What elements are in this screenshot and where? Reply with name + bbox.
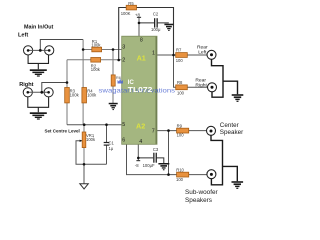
svg-text:Right: Right bbox=[195, 82, 207, 88]
wire pin5 row bbox=[67, 124, 122, 126]
wire C1 leads bbox=[106, 125, 108, 165]
node left jacks tip dots bbox=[27, 49, 30, 52]
wire pin3 row bbox=[83, 49, 122, 51]
wire pin1 output row bbox=[157, 54, 207, 56]
terminal +8 bbox=[137, 17, 141, 18]
wire A2 feedback pin7 to pin6 bbox=[127, 131, 169, 175]
svg-text:100k: 100k bbox=[70, 92, 80, 97]
wire A1 feedback loop bbox=[119, 8, 174, 61]
svg-text:Main In/Out: Main In/Out bbox=[24, 24, 54, 30]
watermark logo bbox=[118, 79, 123, 84]
svg-text:3: 3 bbox=[122, 44, 125, 50]
wire VR1 bottom lead bbox=[83, 148, 85, 165]
resistor R8 bbox=[176, 85, 188, 90]
svg-text:8: 8 bbox=[140, 38, 143, 44]
svg-text:Set Centre Level: Set Centre Level bbox=[45, 128, 80, 133]
svg-text:C1: C1 bbox=[109, 141, 115, 146]
svg-text:TL072: TL072 bbox=[128, 87, 153, 94]
wire left jacks signal row bbox=[28, 49, 49, 51]
svg-text:Speakers: Speakers bbox=[185, 197, 212, 204]
svg-text:R8: R8 bbox=[177, 80, 183, 85]
svg-text:A2: A2 bbox=[136, 121, 145, 130]
svg-text:Sub-woofer: Sub-woofer bbox=[185, 189, 219, 196]
svg-text:Left: Left bbox=[18, 32, 28, 38]
capacitor C2 bbox=[154, 18, 158, 27]
svg-text:4: 4 bbox=[139, 139, 142, 145]
node pin8 C2 junction bbox=[138, 22, 141, 25]
ground left input bbox=[30, 69, 47, 76]
wire pin7 output row bbox=[157, 130, 207, 132]
wire output to R8 column bbox=[174, 55, 177, 87]
svg-text:100k: 100k bbox=[91, 67, 101, 72]
svg-text:100k: 100k bbox=[87, 92, 97, 97]
rca jack rear right bbox=[208, 83, 217, 92]
resistor R2 bbox=[91, 58, 101, 63]
ground C3 bbox=[158, 163, 169, 170]
rca jack subwoofer bbox=[207, 170, 216, 179]
svg-text:IC: IC bbox=[128, 79, 135, 86]
svg-text:100: 100 bbox=[177, 90, 185, 95]
svg-text:R6: R6 bbox=[116, 75, 122, 80]
node VR1 bottom junction bbox=[83, 163, 86, 166]
resistor R1 bbox=[92, 47, 102, 52]
potentiometer VR1 bbox=[82, 132, 86, 148]
wire pin2 row bbox=[67, 59, 122, 61]
IC U1 TL072 body bbox=[122, 36, 157, 144]
svg-text:R9: R9 bbox=[177, 123, 183, 128]
ground right input bbox=[30, 112, 47, 119]
capacitor C3 bbox=[153, 153, 157, 163]
wire R8 row to rear right jack bbox=[185, 86, 208, 88]
node pin1 feedback junction bbox=[172, 54, 175, 57]
svg-text:100: 100 bbox=[176, 177, 184, 182]
wire right input riser bbox=[42, 83, 67, 93]
wire pin4 stub bbox=[137, 144, 139, 160]
svg-text:100K: 100K bbox=[121, 11, 131, 16]
svg-text:100k: 100k bbox=[86, 137, 96, 142]
resistor R9 bbox=[177, 128, 189, 133]
svg-text:R7: R7 bbox=[176, 47, 182, 52]
wire C2 row bbox=[139, 22, 169, 24]
node pin4 junction bbox=[137, 157, 140, 160]
node pin7 junction bbox=[167, 129, 170, 132]
svg-text:+8: +8 bbox=[135, 12, 141, 17]
node R3 top junction bbox=[66, 81, 69, 84]
svg-text:5: 5 bbox=[122, 122, 125, 128]
node R1 left junction bbox=[82, 48, 85, 51]
svg-text:Speaker: Speaker bbox=[220, 129, 243, 136]
terminal -8 bbox=[136, 160, 140, 161]
wire right jacks signal row bbox=[28, 91, 49, 93]
svg-text:100μF: 100μF bbox=[143, 163, 155, 168]
svg-text:R5: R5 bbox=[128, 1, 134, 6]
svg-text:100k: 100k bbox=[91, 43, 101, 48]
wire rear ground branch bbox=[223, 81, 238, 94]
svg-text:100: 100 bbox=[177, 133, 185, 138]
svg-text:A1: A1 bbox=[137, 54, 146, 63]
wire R4 column bbox=[82, 40, 84, 125]
svg-text:C2: C2 bbox=[153, 12, 159, 17]
node right jack junction bbox=[40, 91, 43, 94]
svg-text:Center: Center bbox=[220, 122, 239, 129]
svg-text:R10: R10 bbox=[176, 167, 184, 172]
wire C3 row bbox=[138, 158, 164, 163]
wire output ground branch bbox=[223, 166, 238, 181]
wire left jacks shield bracket bbox=[28, 55, 48, 69]
svg-text:1: 1 bbox=[152, 51, 155, 57]
wire VR1 ground stem bbox=[83, 164, 85, 183]
rca jack left L1 bbox=[24, 46, 54, 55]
svg-text:1μ: 1μ bbox=[109, 146, 114, 151]
svg-text:2: 2 bbox=[122, 57, 125, 63]
rca jack rear left bbox=[207, 50, 216, 59]
node C1 top junction bbox=[105, 123, 108, 126]
ground R6 bbox=[109, 103, 118, 111]
ground rear bbox=[232, 94, 244, 102]
capacitor C1 bbox=[104, 142, 110, 146]
node R4 bottom junction bbox=[83, 123, 86, 126]
wire R6 column bbox=[112, 50, 114, 103]
wire rear ground bus bbox=[212, 59, 224, 97]
svg-text:Left: Left bbox=[198, 50, 207, 56]
wire right jacks shield bracket bbox=[28, 97, 49, 112]
resistor R4 bbox=[82, 88, 87, 103]
node subwoofer junction bbox=[167, 173, 170, 176]
svg-text:7: 7 bbox=[152, 128, 155, 134]
svg-text:100μ: 100μ bbox=[151, 27, 161, 32]
node left jack junction bbox=[39, 49, 42, 52]
node pin2 feedback junction bbox=[117, 59, 120, 62]
svg-text:-8: -8 bbox=[135, 163, 139, 168]
svg-text:Right: Right bbox=[19, 82, 33, 88]
wire R3 column bbox=[66, 60, 68, 125]
resistor R10 bbox=[177, 172, 189, 177]
wire VR1 top lead bbox=[83, 125, 85, 132]
svg-text:C3: C3 bbox=[153, 147, 159, 152]
svg-text:100: 100 bbox=[176, 58, 184, 63]
wire left input riser bbox=[40, 40, 83, 51]
node pin3 R6 junction bbox=[112, 48, 115, 51]
wire subwoofer row bbox=[169, 174, 208, 176]
wire +8 stub to IC pin8 bbox=[138, 17, 140, 36]
wire output ground bus bbox=[211, 135, 223, 185]
resistor R5 bbox=[126, 5, 136, 10]
ground output bbox=[232, 181, 244, 189]
svg-text:Rear: Rear bbox=[197, 45, 208, 51]
resistor R3 bbox=[65, 88, 70, 103]
wire VR1 wiper loop bbox=[76, 141, 107, 165]
resistor R7 bbox=[176, 53, 188, 58]
svg-text:6: 6 bbox=[122, 138, 125, 144]
resistor R6 bbox=[111, 75, 115, 86]
node right jacks tip dots bbox=[27, 91, 30, 94]
rca jack right R1 bbox=[23, 88, 53, 97]
rca jack center speaker bbox=[207, 126, 216, 135]
ground VR1 open triangle bbox=[80, 184, 89, 189]
ground C2 bbox=[164, 24, 173, 31]
